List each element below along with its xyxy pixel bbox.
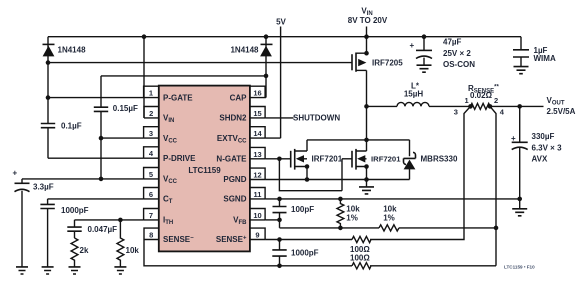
resistor R2 2k: [71, 238, 78, 267]
IC pin names left: [163, 93, 196, 244]
svg-text:15: 15: [253, 109, 261, 118]
wire drain bus: [307, 139, 410, 141]
node rail/V1 junction: [142, 34, 147, 39]
capacitor C2 0.15uF: [94, 76, 108, 179]
svg-text:1: 1: [465, 96, 469, 105]
ground 1uF: [514, 67, 529, 74]
svg-text:100pF: 100pF: [291, 205, 314, 214]
node Q3 source/PGND/ground junction: [364, 177, 369, 182]
svg-text:SENSE−: SENSE−: [163, 235, 194, 244]
svg-text:LTC1159 • F10: LTC1159 • F10: [504, 265, 535, 270]
IC pin names right: [216, 93, 247, 244]
svg-text:1: 1: [149, 89, 153, 98]
svg-text:AVX: AVX: [532, 155, 549, 164]
IC U1 LTC1159: [159, 86, 250, 252]
svg-text:1%: 1%: [383, 214, 395, 223]
wire CT pin6 to 1000pF: [48, 198, 144, 200]
wire inductor node column: [366, 70, 368, 139]
svg-text:IRF7201: IRF7201: [312, 155, 343, 164]
node Q2 source/bulk tie: [305, 164, 310, 169]
svg-text:6: 6: [149, 190, 153, 199]
ground 1000pF: [42, 267, 54, 274]
wire SENSE- pin8 route: [144, 240, 352, 266]
capacitor C5 3.3uF: [15, 179, 30, 267]
node drain bus junction: [364, 138, 369, 143]
svg-text:SGND: SGND: [223, 195, 246, 204]
capacitor C9 100pF: [273, 199, 287, 220]
svg-text:10: 10: [253, 211, 261, 220]
svg-text:WIMA: WIMA: [534, 54, 556, 63]
node Q3 source/bulk tie: [364, 164, 369, 169]
wire V1 rail to VIN pin2: [143, 37, 145, 118]
svg-text:12: 12: [253, 171, 261, 180]
ground 330uF: [512, 209, 527, 216]
node ITH/R3 junction: [118, 218, 123, 223]
resistor R4 10k 1% (vertical): [337, 199, 344, 228]
wire VIN top rail: [48, 36, 521, 38]
svg-text:10k: 10k: [126, 246, 140, 255]
svg-text:2.5V/5A: 2.5V/5A: [547, 107, 576, 116]
svg-text:0.1µF: 0.1µF: [61, 121, 82, 130]
svg-text:100Ω: 100Ω: [350, 254, 370, 263]
svg-text:1N4148: 1N4148: [58, 45, 87, 54]
svg-text:2: 2: [149, 109, 153, 118]
diode D2 1N4148 (right): [260, 37, 272, 98]
node VIN label stem: [366, 27, 368, 37]
wire SGND pin11: [265, 198, 520, 200]
capacitor C3 47uF: [416, 37, 432, 65]
capacitor C8 330uF: [512, 106, 528, 208]
wire P-GATE pin1 run: [48, 97, 144, 99]
svg-text:OS-CON: OS-CON: [443, 60, 475, 69]
node SENSE-/C10 junction: [277, 264, 282, 269]
svg-text:8: 8: [149, 231, 153, 240]
wire VOUT: [490, 105, 544, 107]
transistor Q1 IRF7205: [352, 37, 367, 72]
svg-text:1000pF: 1000pF: [61, 206, 89, 215]
diode D3 MBRS330: [404, 140, 416, 180]
node SENSE+/C10 junction: [277, 237, 282, 242]
svg-text:+: +: [511, 134, 516, 143]
capacitor C1 0.1uF: [41, 98, 55, 159]
capacitor C7 0.047uF: [67, 220, 81, 238]
wire VCC pin5 to 3.3uF: [22, 178, 144, 180]
ground PGND: [366, 180, 368, 187]
ground 3.3uF: [16, 267, 28, 274]
node SGND/C9 junction: [277, 197, 282, 202]
wire N-GATE pin13: [265, 158, 291, 160]
ground 2k: [69, 267, 81, 274]
resistor R6 100ohm (top): [352, 236, 371, 242]
node SGND/C8 ground junction: [517, 197, 522, 202]
svg-text:3: 3: [454, 107, 458, 116]
svg-text:10k: 10k: [346, 205, 360, 214]
node Q1 source/bulk tie: [364, 51, 369, 56]
node 5V stem: [265, 27, 281, 139]
svg-text:IRF7201: IRF7201: [371, 155, 401, 164]
node CAP/D2 anode junction: [264, 74, 269, 79]
wire divider node: [280, 220, 497, 228]
svg-text:13: 13: [253, 150, 261, 159]
svg-text:0.047µF: 0.047µF: [88, 225, 118, 234]
resistor R3 10k: [117, 220, 124, 267]
node Q2 source/PGND junction: [305, 177, 310, 182]
svg-text:330µF: 330µF: [532, 132, 555, 141]
wire P-gate line A: [48, 62, 352, 64]
node R1 pad 1: [468, 104, 473, 109]
pin boxes right (16-9): [250, 86, 265, 239]
svg-text:+: +: [410, 41, 415, 50]
pin boxes left (1-8): [144, 86, 159, 239]
svg-text:15µH: 15µH: [404, 89, 424, 98]
capacitor C10 1000pF: [272, 240, 286, 266]
svg-text:P-GATE: P-GATE: [163, 93, 193, 102]
svg-text:N-GATE: N-GATE: [216, 155, 247, 164]
wire VCC pin3: [101, 137, 144, 139]
svg-text:P-DRIVE: P-DRIVE: [163, 154, 196, 163]
svg-text:47µF: 47µF: [443, 38, 462, 47]
svg-text:5: 5: [149, 170, 153, 179]
svg-text:SHDN2: SHDN2: [219, 114, 247, 123]
node VOUT/C8 junction: [517, 104, 522, 109]
pin numbers: [149, 89, 263, 240]
svg-text:2: 2: [494, 96, 498, 105]
resistor R7 100ohm (bottom): [352, 263, 496, 269]
resistor R1 RSENSE 0.02ohm: [471, 103, 491, 109]
svg-text:0.15µF: 0.15µF: [113, 104, 138, 113]
wire CAP pin16: [264, 97, 267, 99]
capacitor C6 1000pF: [40, 199, 54, 267]
node SGND/R4 junction: [338, 197, 343, 202]
wire kelvin sense 4: [490, 106, 496, 265]
wire VFB pin10: [265, 219, 279, 221]
svg-text:3.3µF: 3.3µF: [33, 183, 54, 192]
node R4/R5 divider junction: [338, 226, 343, 231]
wire ITH pin7: [75, 219, 144, 221]
node rail/VIN/Q1 source junction: [364, 34, 369, 39]
svg-text:5V: 5V: [276, 18, 286, 27]
svg-text:1000pF: 1000pF: [291, 249, 319, 258]
svg-text:16: 16: [253, 89, 261, 98]
wire SENSE+ pin9: [265, 239, 352, 241]
svg-text:+: +: [13, 169, 18, 178]
svg-text:1%: 1%: [346, 214, 358, 223]
wire line B CAP node: [101, 75, 266, 77]
node VCC pin3 junction: [99, 136, 104, 141]
svg-text:CAP: CAP: [230, 93, 248, 102]
svg-text:100Ω: 100Ω: [350, 245, 370, 254]
svg-text:PGND: PGND: [223, 175, 246, 184]
transistor Q2 IRF7201: [291, 140, 307, 180]
svg-text:11: 11: [254, 190, 262, 199]
svg-text:10k: 10k: [383, 205, 397, 214]
svg-text:MBRS330: MBRS330: [421, 154, 458, 163]
node divider/pad4 junction: [494, 226, 499, 231]
svg-text:0.02Ω: 0.02Ω: [470, 91, 493, 100]
svg-text:2k: 2k: [80, 246, 89, 255]
svg-text:SHUTDOWN: SHUTDOWN: [293, 114, 340, 123]
svg-text:SENSE+: SENSE+: [216, 235, 247, 244]
svg-text:IRF7205: IRF7205: [372, 58, 403, 67]
svg-text:LTC1159: LTC1159: [188, 166, 221, 175]
capacitor C4 1uF: [513, 37, 529, 67]
node rail/C3 junction: [422, 34, 427, 39]
node Q1 drain/L1 junction: [364, 104, 369, 109]
svg-text:1N4148: 1N4148: [230, 45, 259, 54]
svg-text:6.3V × 3: 6.3V × 3: [532, 144, 563, 153]
node D1 anode junction: [46, 60, 51, 65]
node R1 pad 2: [488, 104, 493, 109]
wire PGND pin12: [265, 179, 409, 181]
svg-text:14: 14: [253, 129, 262, 138]
inductor L1 15uH: [367, 105, 398, 107]
wire kelvin sense 3: [370, 106, 471, 239]
node P-GATE/C1 junction: [46, 95, 51, 100]
svg-text:3: 3: [149, 129, 153, 138]
wire shutdown stub: [265, 117, 293, 119]
ground 47uF: [417, 65, 432, 72]
svg-text:8V TO 20V: 8V TO 20V: [348, 16, 388, 25]
node N-GATE branch junction: [277, 157, 282, 162]
wire N-GATE branch to Q3 gate: [279, 159, 342, 191]
resistor R5 10k 1% (horizontal): [379, 225, 399, 231]
node VFB junction: [277, 218, 282, 223]
transistor Q3 IRF7201: [342, 140, 367, 180]
wire P-DRIVE pin4 to 0.1uF: [48, 157, 144, 159]
svg-text:9: 9: [255, 231, 259, 240]
node VCC pin5 junction: [99, 177, 104, 182]
svg-text:7: 7: [149, 211, 153, 220]
ground 10k: [114, 267, 126, 274]
diode D1 1N4148 (left): [43, 37, 55, 98]
svg-text:25V × 2: 25V × 2: [443, 49, 471, 58]
node rail/D2 junction: [264, 34, 269, 39]
